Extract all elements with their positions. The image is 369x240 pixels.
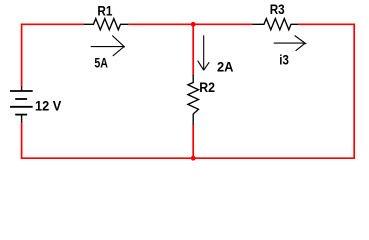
resistor R3 (zigzag, top right branch) xyxy=(253,19,299,30)
current arrow 5A (right-pointing) xyxy=(91,36,125,56)
current arrow 2A (down-pointing) xyxy=(198,35,210,70)
svg-text:12 V: 12 V xyxy=(35,98,62,114)
wire left vertical lower (battery - to bottom) xyxy=(21,122,23,158)
resistor R2 (vertical zigzag, middle branch) xyxy=(188,75,199,125)
svg-text:i3: i3 xyxy=(279,52,289,68)
wire middle vertical upper (node A to R2) xyxy=(192,24,194,76)
junction node A (top middle) xyxy=(191,22,196,27)
wire top-middle segment (R1 to node A) xyxy=(128,23,252,25)
wire bottom segment xyxy=(21,157,355,159)
wire right vertical xyxy=(353,24,355,160)
svg-text:5A: 5A xyxy=(94,55,108,71)
svg-text:2A: 2A xyxy=(217,59,234,75)
wire top-left segment xyxy=(22,23,84,25)
current arrow i3 (right-pointing) xyxy=(274,36,307,51)
junction node B (bottom middle) xyxy=(191,156,196,161)
svg-text:R1: R1 xyxy=(97,2,112,18)
battery V1 (12 V source) xyxy=(10,87,33,123)
wire top-right segment (R3 to right corner) xyxy=(298,23,354,25)
resistor R1 (zigzag, top left branch) xyxy=(84,19,128,30)
wire left vertical upper (to battery +) xyxy=(21,24,23,88)
wire middle vertical lower (R2 to bottom node B) xyxy=(192,125,194,159)
svg-text:R3: R3 xyxy=(270,1,285,17)
svg-text:R2: R2 xyxy=(199,79,215,95)
